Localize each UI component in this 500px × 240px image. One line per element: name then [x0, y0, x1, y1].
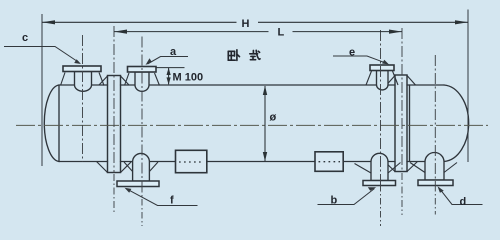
svg-text:d: d — [460, 196, 467, 208]
svg-text:f: f — [170, 195, 174, 207]
svg-text:ø: ø — [270, 112, 277, 124]
svg-text:H: H — [242, 18, 250, 30]
svg-text:M 100: M 100 — [173, 72, 204, 84]
svg-text:b: b — [331, 195, 338, 207]
svg-text:c: c — [22, 32, 28, 44]
svg-text:e: e — [349, 47, 355, 59]
svg-text:a: a — [170, 46, 177, 58]
svg-text:L: L — [278, 27, 285, 39]
